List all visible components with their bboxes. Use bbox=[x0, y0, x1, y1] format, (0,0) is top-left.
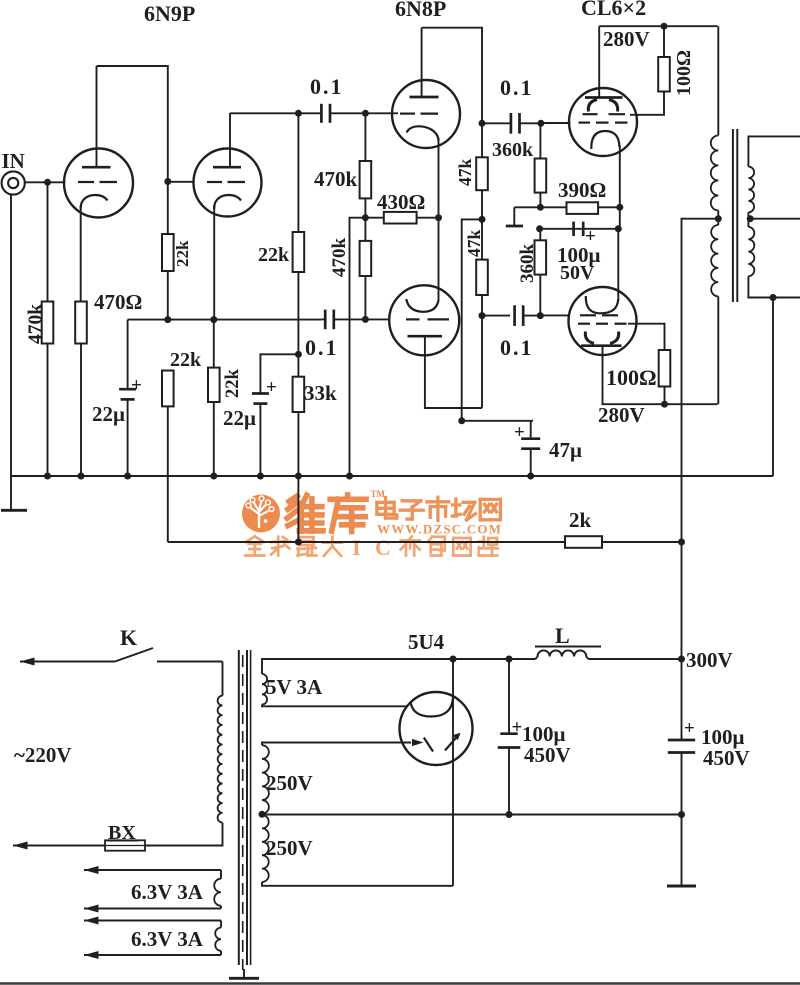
wire OPT primary top lead bbox=[717, 26, 719, 135]
wire 360k2 top bbox=[539, 229, 541, 241]
node rect out dot bbox=[450, 656, 457, 663]
wire fuse to coil bbox=[145, 823, 223, 846]
wire x482 to plate wire bbox=[481, 316, 483, 408]
label 360k 1 bbox=[492, 139, 534, 161]
node 300V dot bbox=[678, 656, 685, 663]
arrow 6.3V1 bottom bbox=[84, 905, 99, 913]
svg-text:+: + bbox=[514, 422, 525, 443]
node bus dot bbox=[295, 473, 302, 480]
wire 22u1 to bus bbox=[127, 399, 129, 476]
label 2k bbox=[569, 508, 592, 532]
svg-text:360k: 360k bbox=[492, 139, 534, 161]
coil 6.3V 2 bbox=[215, 921, 221, 956]
wire V1 plate loop bbox=[97, 66, 168, 182]
label 100μ (c5) bbox=[522, 722, 566, 746]
node choke in dot bbox=[506, 656, 513, 663]
capacitor 22μ stage1 bbox=[119, 389, 136, 399]
svg-text:K: K bbox=[120, 625, 137, 650]
wire cathode join bbox=[619, 145, 621, 229]
node splitter node dot bbox=[362, 214, 369, 221]
resistor 47k 1 bbox=[476, 157, 488, 190]
svg-text:6.3V 3A: 6.3V 3A bbox=[131, 927, 204, 951]
node V2 grid junction bbox=[164, 178, 171, 185]
wire V5 screen bbox=[630, 92, 664, 115]
label 6.3V 3A (2) bbox=[131, 927, 204, 951]
svg-text:2k: 2k bbox=[569, 508, 592, 532]
svg-text:22k: 22k bbox=[170, 349, 202, 371]
wire 5U4 through line bbox=[452, 659, 454, 886]
label 100μ 50V b bbox=[560, 262, 595, 284]
wire primary top lead bbox=[222, 662, 224, 696]
wire HV tap to rail bbox=[262, 814, 682, 816]
ground bias stub bar bbox=[506, 225, 523, 228]
node bus dot bbox=[44, 473, 51, 480]
svg-text:+: + bbox=[131, 375, 142, 396]
wire 47k2 bottom bbox=[481, 295, 483, 316]
svg-text:5U4: 5U4 bbox=[408, 630, 445, 654]
label 47μ bbox=[549, 438, 582, 462]
wire 430Ω left bbox=[365, 217, 383, 219]
svg-text:470Ω: 470Ω bbox=[94, 290, 142, 314]
resistor 22k V2 cathode bbox=[208, 368, 220, 402]
svg-text:430Ω: 430Ω bbox=[377, 190, 425, 214]
resistor 390Ω bbox=[567, 202, 599, 214]
label 470k vertical bbox=[26, 304, 47, 344]
resistor 22k V2 load bbox=[293, 232, 305, 272]
svg-text:33k: 33k bbox=[304, 381, 337, 405]
svg-text:C: C bbox=[375, 535, 391, 560]
wire cap to 470k node bbox=[330, 112, 365, 114]
svg-text:22μ: 22μ bbox=[92, 402, 125, 426]
svg-text:5V 3A: 5V 3A bbox=[266, 675, 323, 699]
node 2k B+ dot bbox=[678, 539, 685, 546]
label 470k vertical 2 bbox=[329, 238, 350, 278]
wire 6.3V1 top bbox=[84, 869, 221, 871]
node cap5 rail dot bbox=[506, 811, 513, 818]
tube V2 6N9P triode B bbox=[194, 113, 262, 217]
wire 22k to node bbox=[167, 271, 169, 320]
svg-text:0.1: 0.1 bbox=[500, 335, 534, 360]
wire V6 screen bbox=[628, 324, 665, 350]
node cap6 rail dot bbox=[678, 811, 685, 818]
resistor 33k bbox=[293, 377, 305, 412]
svg-text:0.1: 0.1 bbox=[305, 335, 339, 360]
label + 47u bbox=[514, 422, 525, 443]
node 47u left dot bbox=[458, 417, 465, 424]
node 47k mid dot bbox=[479, 216, 486, 223]
node bus dot bbox=[257, 473, 264, 480]
node bus dot bbox=[210, 473, 217, 480]
resistor 100Ω screen 1 bbox=[658, 57, 670, 92]
node IN terminal bbox=[2, 171, 25, 194]
label CL6×2 bbox=[581, 0, 646, 20]
node rail1 right dot bbox=[616, 204, 623, 211]
wire OPT sec bottom lead bbox=[748, 276, 800, 297]
node B+ top dot bbox=[661, 23, 668, 30]
wire 430Ω right bbox=[417, 217, 439, 219]
wire 22u1 drop bbox=[127, 320, 129, 390]
wire 22k2 top bbox=[297, 113, 299, 232]
label 250V (2) bbox=[266, 836, 313, 860]
label 470k h bbox=[314, 167, 358, 191]
wire V4 plate lead bbox=[425, 336, 482, 408]
arrow 6.3V1 top bbox=[84, 866, 99, 874]
node cap3 out dot bbox=[537, 120, 544, 127]
label 22k vertical A bbox=[173, 240, 192, 267]
svg-text:TM: TM bbox=[371, 489, 386, 499]
coil OPT secondary lower bbox=[748, 227, 754, 276]
ground input bbox=[1, 509, 27, 512]
resistor 360k 1 bbox=[535, 159, 547, 193]
wire V6 grid bbox=[540, 314, 570, 316]
wire OPT sec tap joint bbox=[747, 212, 749, 227]
capacitor 100μ 50V bbox=[574, 222, 584, 236]
node lower coupling dot bbox=[479, 312, 486, 319]
resistor 470k splitter 2 bbox=[360, 241, 372, 276]
svg-text:250V: 250V bbox=[266, 771, 313, 795]
tube V3 6N8P triode A bbox=[392, 28, 460, 148]
label + 22u1 bbox=[131, 375, 142, 396]
svg-text:22k: 22k bbox=[173, 240, 192, 267]
wire 470k2 bottom bbox=[364, 276, 366, 319]
wire splitter stub bbox=[350, 218, 366, 476]
node feedback dot bbox=[295, 539, 302, 546]
coil PT primary bbox=[218, 696, 223, 823]
label 430Ω bbox=[377, 190, 425, 214]
node grid junction dot bbox=[44, 179, 51, 186]
svg-text:L: L bbox=[555, 623, 570, 648]
label 22μ 1 bbox=[92, 402, 125, 426]
svg-text:100Ω: 100Ω bbox=[606, 365, 657, 390]
label 100μ (c6) bbox=[701, 725, 745, 749]
wire lower coupling line bbox=[482, 315, 510, 317]
wire PSU ground lead bbox=[681, 815, 683, 886]
label 6.3V 3A (1) bbox=[131, 880, 204, 904]
svg-text:300V: 300V bbox=[686, 648, 733, 672]
svg-text:47k: 47k bbox=[464, 230, 484, 258]
svg-text:22k: 22k bbox=[223, 369, 243, 399]
node V3 plate dot bbox=[479, 120, 486, 127]
capacitor 0.1 coupling 3 bbox=[511, 113, 520, 134]
svg-text:390Ω: 390Ω bbox=[558, 178, 606, 202]
svg-text:I: I bbox=[352, 535, 361, 560]
node 100Ω2 bottom dot bbox=[661, 401, 668, 408]
node 250V tap dot bbox=[259, 811, 266, 818]
wire 470k bottom lead bbox=[47, 344, 49, 477]
label 360k vertical bbox=[517, 244, 538, 284]
node rail2 right dot bbox=[615, 225, 622, 232]
svg-text:22k: 22k bbox=[258, 244, 290, 266]
wire V2 cathode to 22k bbox=[213, 320, 215, 368]
scan edge bbox=[0, 982, 800, 985]
label IN bbox=[2, 149, 25, 173]
wire OPT primary bottom lead bbox=[717, 296, 719, 404]
wire switch out bbox=[157, 661, 223, 663]
wire ground bus bbox=[11, 475, 773, 477]
label BX bbox=[107, 822, 138, 844]
svg-text:+: + bbox=[684, 718, 695, 739]
label 47k vertical 2 bbox=[464, 230, 484, 258]
wire 5V bottom lead bbox=[262, 705, 408, 707]
node rail2 left dot bbox=[536, 225, 543, 232]
capacitor 47μ bbox=[521, 439, 540, 449]
label 470Ω bbox=[94, 290, 142, 314]
coil OPT primary lower bbox=[711, 225, 718, 296]
wire OPT sec mid tap bbox=[748, 218, 800, 220]
arrow mains top bbox=[20, 658, 35, 666]
svg-text:+: + bbox=[266, 377, 277, 398]
node V2 cathode dot bbox=[210, 316, 217, 323]
node A dot bbox=[164, 316, 171, 323]
wire bias stub bbox=[513, 207, 515, 225]
wire mains top bbox=[20, 661, 115, 663]
label 0.1 (3) bbox=[500, 75, 534, 100]
node 22u2 tap dot bbox=[295, 351, 302, 358]
tube V6 CL6 lower inverted bbox=[569, 287, 637, 355]
wire cap2 to grid bbox=[334, 318, 390, 320]
svg-text:+: + bbox=[512, 717, 523, 738]
wire cap5 top lead bbox=[508, 659, 510, 734]
wire V6 plate bbox=[603, 346, 718, 405]
choke L bbox=[536, 650, 589, 659]
resistor 470k input grid leak bbox=[42, 302, 54, 344]
svg-text:100Ω: 100Ω bbox=[673, 50, 695, 96]
wire 6.3V1 bottom bbox=[84, 908, 221, 910]
wire 47k1 top bbox=[481, 123, 483, 157]
capacitor 100μ450V 1 bbox=[498, 734, 521, 748]
wire feedback drop bbox=[167, 406, 169, 542]
arrow mains bottom bbox=[13, 842, 28, 850]
svg-text:280V: 280V bbox=[598, 403, 645, 427]
wire V2 plate line bbox=[230, 112, 321, 114]
wire cap5 bottom lead bbox=[508, 748, 510, 815]
wire 360k1 top bbox=[539, 123, 541, 158]
wire 470k1 top bbox=[364, 113, 366, 161]
svg-text:470k: 470k bbox=[329, 238, 350, 278]
node cathode-430 dot bbox=[435, 214, 442, 221]
label + c5 bbox=[512, 717, 523, 738]
label + 22u2 bbox=[266, 377, 277, 398]
svg-text:~220V: ~220V bbox=[14, 743, 72, 767]
label 6N8P bbox=[395, 0, 446, 21]
node OPT sec mid dot bbox=[747, 215, 754, 222]
wire cap3 right bbox=[520, 122, 541, 124]
wire 360k1 bottom bbox=[539, 193, 541, 208]
tube V7 5U4 rectifier bbox=[400, 692, 473, 765]
capacitor 0.1 coupling 2 bbox=[325, 310, 334, 330]
label 5V 3A bbox=[266, 675, 323, 699]
label 22k vertical B bbox=[223, 369, 243, 399]
node OPT sec gnd dot bbox=[770, 294, 777, 301]
capacitor 100μ450V 2 bbox=[668, 740, 695, 753]
wire 2k right bbox=[602, 541, 682, 543]
wire core ground stub bbox=[243, 969, 245, 978]
tube V4 6N8P triode B inverted bbox=[389, 285, 459, 355]
wire 47k1 bottom bbox=[481, 190, 483, 259]
wire 33k to bus bbox=[297, 412, 299, 476]
wire 22k plate-node lead bbox=[167, 182, 169, 235]
watermark logo bbox=[242, 489, 502, 560]
wire rail2 bbox=[540, 228, 619, 230]
svg-text:47k: 47k bbox=[455, 159, 475, 187]
svg-text:360k: 360k bbox=[517, 244, 538, 284]
wire IN shield down bbox=[10, 195, 12, 510]
svg-text:WWW.DZSC.COM: WWW.DZSC.COM bbox=[377, 522, 502, 537]
wire 47u node line bbox=[462, 420, 533, 422]
wire feedback line bbox=[168, 541, 565, 543]
label ~220V bbox=[14, 743, 72, 767]
ground PT bbox=[229, 977, 259, 980]
wire 47u bottom lead bbox=[530, 449, 532, 476]
wire grid line lower bbox=[321, 318, 325, 320]
arrow 6.3V2 bottom bbox=[84, 951, 99, 959]
coil 250V upper bbox=[262, 745, 269, 814]
wire cap6 top lead bbox=[681, 659, 683, 740]
svg-text:0.1: 0.1 bbox=[500, 75, 534, 100]
svg-text:47μ: 47μ bbox=[549, 438, 582, 462]
node rail1 left dot bbox=[537, 204, 544, 211]
wire 6.3V2 top bbox=[84, 920, 221, 922]
label 47k vertical 1 bbox=[455, 159, 475, 187]
wire 100Ω2 bottom bbox=[664, 387, 666, 405]
wire V2 grid bbox=[168, 181, 194, 183]
label 100Ω lower bbox=[606, 365, 657, 390]
svg-text:CL6×2: CL6×2 bbox=[581, 0, 646, 20]
coil 6.3V 1 bbox=[214, 870, 221, 909]
wire 47u top lead bbox=[530, 421, 532, 439]
wire 100Ω1 top bbox=[663, 26, 665, 57]
label 280V upper bbox=[603, 27, 650, 51]
svg-text:6N8P: 6N8P bbox=[395, 0, 446, 21]
wire cap3 left bbox=[482, 122, 510, 124]
label 100Ω vertical bbox=[673, 50, 695, 96]
wire CL6a grid bbox=[541, 122, 571, 124]
resistor 47k 2 bbox=[476, 260, 488, 295]
node plate junction dot bbox=[295, 110, 302, 117]
label 22k C bbox=[258, 244, 290, 266]
wire IN to grid junction bbox=[25, 181, 65, 183]
label 0.1 (1) bbox=[310, 74, 344, 99]
wire cap6 bottom lead bbox=[681, 753, 683, 815]
coil OPT primary upper bbox=[711, 136, 718, 211]
label 0.1 (4) bbox=[500, 335, 534, 360]
wire V1 cathode lead bbox=[80, 205, 82, 302]
label 450V (c6) bbox=[703, 746, 750, 770]
ground PSU bbox=[667, 885, 696, 888]
label 22k h bbox=[170, 349, 202, 371]
svg-text:6.3V 3A: 6.3V 3A bbox=[131, 880, 204, 904]
svg-text:250V: 250V bbox=[266, 836, 313, 860]
wire V2 cathode lead bbox=[213, 205, 215, 320]
wire cap4 right bbox=[524, 315, 541, 317]
svg-text:470k: 470k bbox=[314, 167, 358, 191]
resistor 430Ω bbox=[384, 212, 417, 224]
svg-text:50V: 50V bbox=[560, 262, 595, 284]
resistor 470k splitter 1 bbox=[360, 161, 372, 198]
svg-text:280V: 280V bbox=[603, 27, 650, 51]
wire switch blade bbox=[115, 648, 153, 662]
wire OPT sec to bus bbox=[772, 298, 774, 477]
svg-text:450V: 450V bbox=[524, 743, 571, 767]
resistor 22k stage1 load bbox=[162, 234, 174, 271]
capacitor 0.1 coupling 4 bbox=[515, 305, 524, 326]
node 470k1 top dot bbox=[362, 110, 369, 117]
resistor 2k bbox=[565, 536, 602, 548]
wire 47k mid branch bbox=[462, 219, 482, 421]
svg-text:6N9P: 6N9P bbox=[144, 1, 195, 26]
wire 22u2 branch bbox=[260, 354, 298, 393]
wire OPT sec top lead bbox=[748, 136, 800, 166]
wire V3 plate loop bbox=[422, 28, 482, 124]
wire V3 grid entry bbox=[365, 112, 398, 114]
label 33k bbox=[304, 381, 337, 405]
tube V5 CL6 upper bbox=[569, 26, 637, 156]
svg-text:450V: 450V bbox=[703, 746, 750, 770]
svg-text:470k: 470k bbox=[26, 304, 47, 344]
wire mains bottom left bbox=[13, 845, 105, 847]
coil OPT secondary upper bbox=[748, 167, 754, 213]
node bus dot bbox=[78, 473, 85, 480]
label 280V lower bbox=[598, 403, 645, 427]
svg-text:IN: IN bbox=[2, 149, 25, 173]
wire lower CL6 cathode lead bbox=[617, 229, 619, 301]
core PT bbox=[239, 650, 251, 970]
node 360k2 bottom dot bbox=[537, 312, 544, 319]
coil 250V lower bbox=[262, 815, 269, 882]
wire V5 plate top bbox=[599, 25, 717, 27]
resistor 360k 2 bbox=[535, 240, 547, 274]
capacitor 22μ stage2 bbox=[252, 394, 269, 404]
label 450V (c5) bbox=[524, 743, 571, 767]
wire 470k1 bottom bbox=[364, 198, 366, 241]
label 390Ω bbox=[558, 178, 606, 202]
svg-text:22μ: 22μ bbox=[223, 406, 256, 430]
label L bbox=[535, 623, 601, 648]
wire rail1 bbox=[514, 206, 620, 208]
resistor 100Ω screen 2 bbox=[659, 350, 671, 387]
coil 5V bbox=[262, 674, 267, 705]
node bus dot bbox=[346, 473, 353, 480]
label + c6 bbox=[684, 718, 695, 739]
label 100μ 50V a bbox=[557, 243, 601, 267]
wire V3 cathode lead bbox=[438, 138, 440, 301]
resistor 22k feedback leg bbox=[162, 371, 174, 407]
node bus dot bbox=[124, 473, 131, 480]
wire 250V bottom lead bbox=[262, 882, 453, 886]
arrow 6.3V2 top bbox=[84, 917, 99, 925]
node OPT center tap dot bbox=[715, 215, 722, 222]
wire B+ rail left bbox=[453, 658, 536, 660]
wire B+ rail right bbox=[588, 658, 681, 660]
wire B+ drop bbox=[682, 219, 719, 659]
wire 6.3V2 bottom bbox=[84, 954, 221, 956]
label + 100u50 bbox=[585, 226, 596, 247]
wire 22k2 down bbox=[297, 272, 299, 377]
wire 22k V2 to bus bbox=[213, 402, 215, 476]
node bus dot bbox=[527, 473, 534, 480]
label 250V (1) bbox=[266, 771, 313, 795]
capacitor 0.1 coupling 1 bbox=[321, 104, 330, 123]
label 6N9P bbox=[144, 1, 195, 26]
wire 360k2 bottom bbox=[539, 275, 541, 316]
wire 33k bus to feedback bbox=[297, 476, 299, 542]
label 5U4 bbox=[408, 630, 445, 654]
wire 250V top lead bbox=[262, 743, 411, 746]
core OPT bbox=[733, 129, 737, 302]
wire 470Ω to bus bbox=[80, 344, 82, 477]
wire node line bbox=[128, 319, 322, 321]
wire OPT tap joint bbox=[717, 210, 719, 225]
